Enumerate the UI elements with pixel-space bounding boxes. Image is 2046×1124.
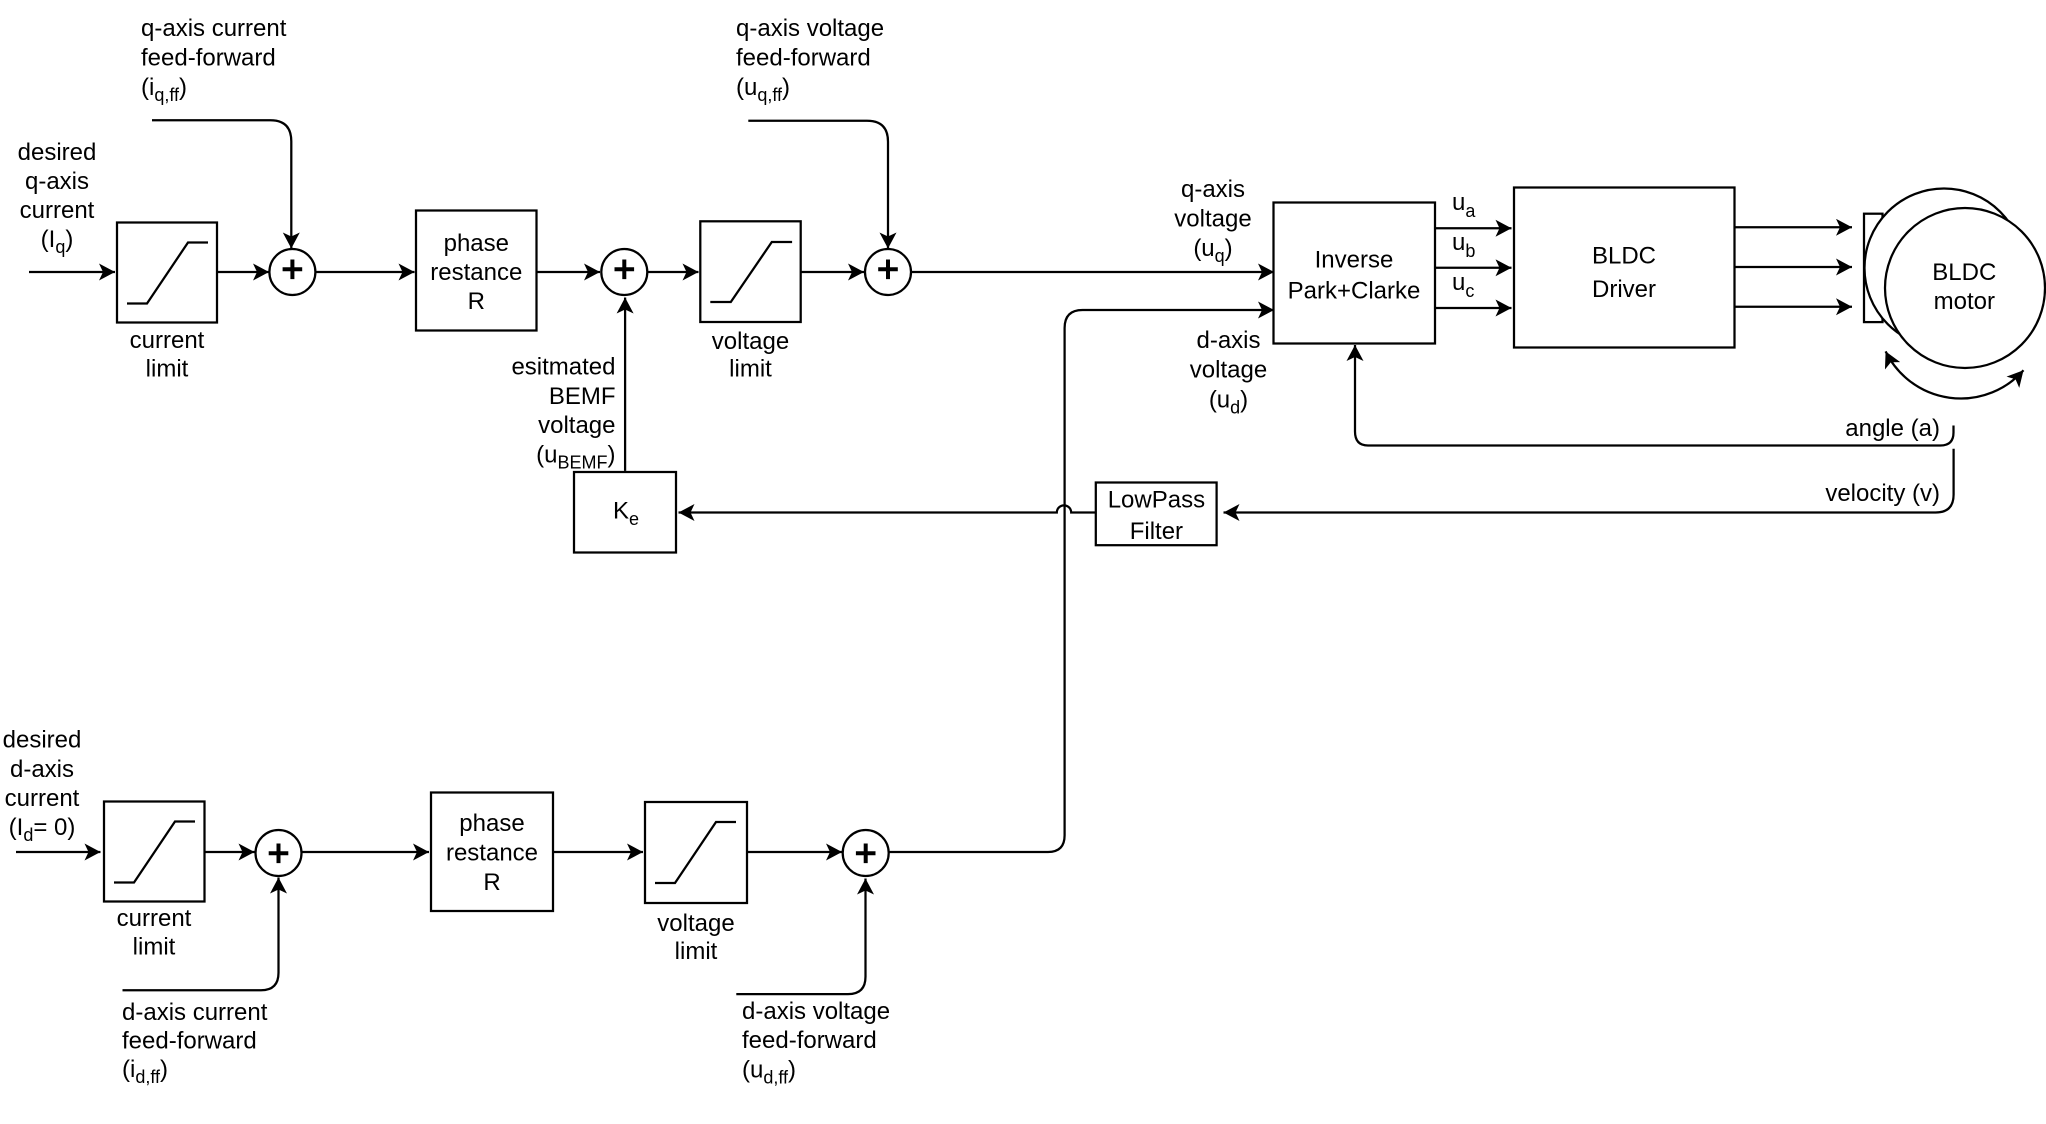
svg-text:current: current [20,197,95,224]
svg-text:voltage: voltage [538,412,615,439]
svg-text:restance: restance [430,259,522,286]
wire: sum S2 to voltage limit (q) [647,271,698,273]
svg-text:(Id= 0): (Id= 0) [9,814,76,845]
svg-text:Filter: Filter [1130,518,1183,545]
svg-text:d-axis voltage: d-axis voltage [742,998,890,1025]
motor front circle: BLDC motor [1885,208,2045,368]
svg-text:current: current [130,327,205,354]
svg-text:voltage: voltage [712,328,789,355]
svg-text:limit: limit [729,356,772,383]
svg-text:q-axis: q-axis [25,168,89,195]
label: d-axis voltage feed-forward (ud,ff) [742,998,890,1088]
label: current limit (d-axis) [117,905,192,961]
wire: current limit to sum S1 [218,271,270,273]
svg-text:phase: phase [459,810,524,837]
wire: driver phase C to motor [1735,306,1853,308]
svg-text:voltage: voltage [1190,357,1267,384]
label: desired q-axis current (Iq) [18,139,97,257]
wire: q-axis voltage feed-forward into sum S3 [748,121,888,249]
wire: d-axis current feed-forward into sum S5 [123,878,279,991]
svg-text:feed-forward: feed-forward [736,45,871,72]
wire: d-axis voltage (ud) from sum S4 up to Park+Clarke [888,310,1274,852]
summing junction S4 [843,830,889,876]
svg-text:Inverse: Inverse [1315,246,1394,273]
svg-text:q-axis current: q-axis current [141,15,287,42]
wire: ub Park+Clarke to BLDC Driver [1435,267,1512,269]
svg-text:BLDC: BLDC [1592,242,1656,269]
block: Inverse Park+Clarke [1274,203,1436,344]
svg-text:feed-forward: feed-forward [742,1027,877,1054]
block: current limit (q-axis) saturation [117,223,217,323]
svg-text:feed-forward: feed-forward [122,1028,257,1055]
wire: LowPass Filter to Ke (with hop over d-axis wire) [679,505,1097,512]
summing junction S1 [269,249,315,295]
svg-text:q-axis voltage: q-axis voltage [736,15,884,42]
svg-text:(uq): (uq) [1193,235,1232,266]
motor stator rectangle [1864,214,1883,322]
summing junction S5 [256,830,302,876]
svg-text:limit: limit [133,934,176,961]
svg-text:(uBEMF): (uBEMF) [536,442,615,473]
svg-text:LowPass: LowPass [1108,487,1205,514]
wire: driver phase B to motor [1735,266,1853,268]
svg-text:(iq,ff): (iq,ff) [141,74,187,105]
svg-text:BLDC: BLDC [1932,259,1996,286]
motor back circle [1865,189,2024,348]
label: voltage limit (d-axis) [657,910,734,965]
wire: phase R to voltage limit (d) [553,851,643,853]
label: d-axis current feed-forward (id,ff) [122,999,268,1087]
svg-text:motor: motor [1934,288,1995,315]
wire: voltage limit to sum S4 [747,851,842,853]
wire: phase R to sum S2 [537,271,601,273]
wire: velocity feedback to LowPass Filter [1224,449,1954,513]
summing junction S2 [601,249,647,295]
label: q-axis voltage feed-forward (uq,ff) [736,15,884,105]
summing junction S3 [865,249,911,295]
wire: uc Park+Clarke to BLDC Driver [1435,307,1512,309]
svg-text:(ud,ff): (ud,ff) [742,1057,796,1088]
wire: sum S1 to phase resistance R (q) [315,271,414,273]
svg-text:desired: desired [3,727,82,754]
block: BLDC Driver [1514,188,1735,348]
wire: ua Park+Clarke to BLDC Driver [1435,227,1512,229]
svg-text:uc: uc [1452,269,1474,301]
svg-text:Park+Clarke: Park+Clarke [1288,278,1421,305]
svg-text:desired: desired [18,139,97,166]
block: Ke gain [574,472,676,553]
wire: q-axis voltage (uq) to Inverse Park+Clarke [911,271,1274,273]
block: voltage limit (q-axis) saturation [700,221,800,322]
svg-text:d-axis: d-axis [1196,327,1260,354]
block: voltage limit (d-axis) saturation [645,802,747,903]
svg-text:ub: ub [1452,229,1475,261]
wire: voltage limit to sum S3 [801,271,864,273]
wire: angle feedback to Park+Clarke [1355,345,1954,446]
block: current limit (d-axis) saturation [104,802,205,902]
svg-text:(id,ff): (id,ff) [122,1056,168,1087]
svg-text:limit: limit [146,356,189,383]
label: q-axis current feed-forward (iq,ff) [141,15,287,105]
wire: q-axis current feed-forward into sum S1 [152,120,291,248]
wire: d-axis input into current limit [16,851,101,853]
svg-text:voltage: voltage [1174,206,1251,233]
svg-text:BEMF: BEMF [549,383,616,410]
wire: current limit to sum S5 [205,851,255,853]
rotation arrow arc under motor [1886,351,2024,398]
svg-text:velocity (v): velocity (v) [1825,480,1940,507]
label: current limit (q-axis) [130,327,205,383]
label: desired d-axis current (Id = 0) [3,727,82,846]
svg-text:Driver: Driver [1592,276,1656,303]
svg-text:q-axis: q-axis [1181,176,1245,203]
wire: driver phase A to motor [1735,226,1853,228]
svg-text:esitmated: esitmated [511,354,615,381]
svg-text:(ud): (ud) [1209,387,1248,418]
svg-text:restance: restance [446,840,538,867]
svg-text:R: R [483,869,500,896]
svg-text:feed-forward: feed-forward [141,45,276,72]
svg-text:current: current [5,785,80,812]
svg-text:current: current [117,905,192,932]
svg-text:ua: ua [1452,189,1476,221]
svg-text:(Iq): (Iq) [41,226,74,257]
svg-text:voltage: voltage [657,910,734,937]
svg-text:angle (a): angle (a) [1845,415,1940,442]
wire: d-axis voltage feed-forward into sum S4 [736,879,865,995]
svg-text:phase: phase [444,230,509,257]
wire: sum S5 to phase resistance R (d) [302,851,430,853]
svg-text:(uq,ff): (uq,ff) [736,74,790,105]
block: phase restance R (d-axis) [431,793,553,912]
svg-text:d-axis current: d-axis current [122,999,268,1026]
block: LowPass Filter [1096,483,1217,546]
wire: Ke output up into sum S2 [624,298,626,471]
block: phase restance R (q-axis) [416,211,537,331]
label: d-axis voltage (ud) [1190,327,1267,418]
svg-text:limit: limit [675,938,718,965]
label: voltage limit (q-axis) [712,328,789,383]
svg-text:d-axis: d-axis [10,756,74,783]
label: esitmated BEMF voltage (uBEMF) [511,354,615,473]
svg-text:R: R [468,288,485,315]
label: q-axis voltage (uq) [1174,176,1251,266]
wire: q-axis input into current limit [29,271,115,273]
